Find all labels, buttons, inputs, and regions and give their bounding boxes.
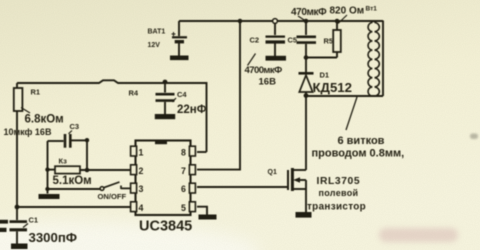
transistor Q1 gate bar	[287, 170, 289, 190]
wire pin8 stub	[197, 151, 207, 153]
ground below C2	[266, 56, 287, 61]
transistor Q1 channel bar	[291, 168, 294, 191]
callout line C2 value	[248, 54, 256, 66]
wire drain riser to D1	[305, 96, 307, 170]
op-amp U1 UC3845 body	[136, 141, 191, 216]
node D1 anode junction	[304, 93, 309, 98]
wire coil right bar	[382, 21, 384, 97]
ground below C4	[155, 114, 175, 119]
wire C2 to ground	[274, 44, 276, 57]
wire pin2	[80, 169, 131, 171]
node pin7 riser tap	[238, 19, 243, 24]
wire pin7 VCC riser	[197, 21, 240, 170]
node R3 left	[45, 167, 49, 171]
resistor R1 body	[14, 88, 23, 111]
wire left rail	[16, 83, 18, 207]
wire pin5 to ground	[197, 207, 207, 215]
resistor R5 leads	[336, 21, 338, 58]
wire R5 bottom to C5 node	[306, 57, 337, 59]
smudge bottom right	[379, 228, 458, 242]
U1 pin 2 box	[131, 165, 137, 175]
resistor R5 body	[333, 30, 341, 52]
ground below R3 branch	[39, 194, 60, 199]
transistor Q1 source stub	[293, 188, 306, 190]
node R5 tap	[335, 19, 340, 24]
clipped capacitor plates left edge	[0, 220, 8, 224]
inductor L1 winding left arcs	[368, 23, 372, 97]
U1 pin 4 box	[131, 202, 137, 212]
resistor R3 lead left	[48, 169, 56, 171]
callout line R5 value	[338, 15, 347, 24]
capacitor C3 plates	[64, 134, 67, 148]
node C5 tap	[304, 19, 309, 24]
wire pin6 to gate	[197, 186, 288, 188]
wire C3 to R3 node	[86, 140, 88, 170]
capacitor C1 plates	[10, 220, 28, 223]
inductor stems	[372, 21, 374, 97]
U1 pin 1 box	[131, 146, 137, 156]
callout line C5 value	[298, 16, 305, 21]
U1 pin 8 box	[189, 146, 195, 156]
ground below Q1	[296, 212, 312, 218]
bottom-left light patch	[0, 222, 260, 250]
capacitor C3 right lead	[72, 139, 88, 141]
capacitor C2 lead	[274, 24, 276, 36]
capacitor C3 left lead	[48, 140, 64, 142]
switch S1 contact	[121, 186, 131, 190]
ground below pin5	[199, 215, 217, 220]
node C5/R5 junction	[304, 55, 309, 60]
diode D1 triangle	[299, 75, 312, 92]
callout line C4	[173, 98, 177, 102]
wire C1 to ground	[16, 232, 18, 244]
wire battery to ground	[178, 43, 180, 56]
node R3 right / pin2	[85, 168, 90, 173]
capacitor C1 lead	[16, 207, 18, 220]
capacitor C5 lead	[305, 21, 307, 35]
switch S1 pivot	[100, 187, 104, 191]
callout line R1 value	[21, 108, 30, 114]
battery plus tick	[172, 32, 176, 36]
capacitor C4 lead	[164, 83, 166, 93]
speck right edge	[470, 134, 478, 140]
wire VREF rail with R4 bump	[17, 80, 207, 152]
ground below C1	[11, 244, 28, 250]
callout line 6 vitkov	[346, 97, 357, 130]
node C4 tap	[163, 80, 168, 85]
capacitor C4 plates	[156, 93, 175, 96]
ground below battery	[170, 56, 189, 61]
switch S1 blade	[104, 182, 120, 188]
wire C3/R3 left branch	[47, 141, 49, 194]
U1 pin 6 box	[189, 183, 195, 193]
switch S1 wire	[48, 188, 101, 190]
wire battery positive drop	[178, 21, 180, 36]
wire +12V top rail	[179, 20, 383, 22]
capacitor C5 plates	[297, 35, 317, 38]
wire C4 to ground	[164, 102, 166, 114]
node C3 right	[85, 138, 89, 142]
battery BAT1 plates	[172, 36, 187, 38]
transistor Q1 body stub	[298, 179, 306, 181]
U1 notch	[155, 140, 167, 144]
transistor Q1 arrow	[293, 177, 300, 183]
U1 pin 3 box	[131, 183, 137, 193]
transistor Q1 drain stub	[293, 169, 306, 171]
wire bottom rail pin4	[17, 206, 131, 208]
wire node to diode	[305, 59, 307, 72]
diode D1 cathode bar	[299, 72, 314, 75]
resistor R3 body	[55, 166, 80, 173]
callout line C1	[23, 224, 28, 228]
callout line C3	[69, 131, 73, 134]
grain	[0, 0, 1, 1]
wire diode to node	[305, 92, 307, 95]
wire C5 to bottom node	[305, 44, 307, 58]
node switch branch	[45, 187, 49, 191]
capacitor C2 plates	[266, 35, 286, 37]
node ring at C2 tap	[273, 19, 278, 24]
U1 pin 7 box	[189, 165, 195, 175]
wire source to ground	[305, 180, 307, 212]
node bottom rail / C1	[15, 205, 20, 210]
wire node to coil bottom	[306, 95, 383, 97]
U1 pin 5 box	[189, 202, 195, 212]
inductor L1 winding right arcs	[375, 23, 380, 97]
